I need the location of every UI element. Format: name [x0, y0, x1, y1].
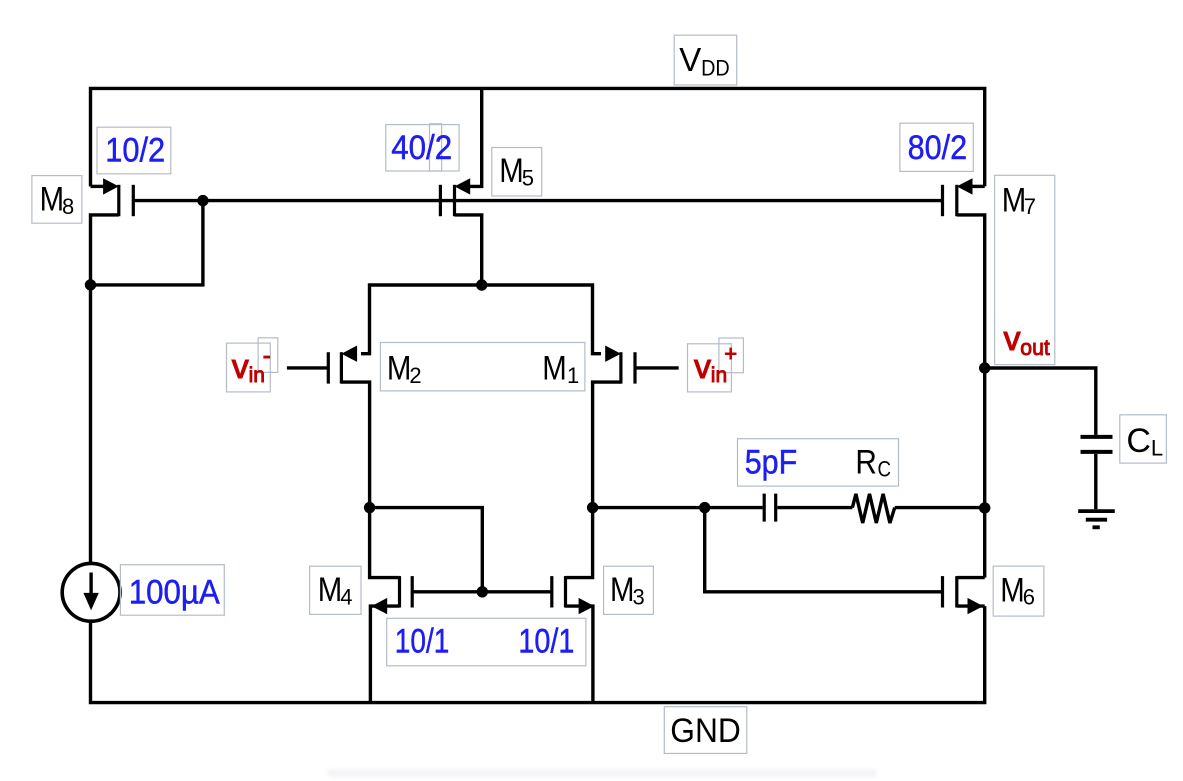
transistor M8 (PMOS 10/2, diode-connected mirror) [91, 178, 134, 216]
resistor RC zigzag [852, 494, 894, 523]
wire M4 diode tie (drain to gate) [370, 508, 483, 592]
label CL box [1120, 415, 1167, 463]
transistor M2 (PMOS, inverting input device) [287, 346, 357, 384]
transistor M7 (PMOS 80/2, second-stage source) [943, 178, 985, 216]
svg-text:M: M [318, 571, 343, 609]
label vin- superscript box [258, 338, 278, 373]
value 40/2 label box [386, 125, 459, 171]
svg-text:in: in [711, 364, 727, 387]
node M8 gate junction dot [197, 195, 208, 206]
svg-text:2: 2 [409, 363, 421, 388]
svg-text:5pF: 5pF [745, 443, 798, 481]
node VDD label box [674, 35, 737, 85]
label M4 box [310, 566, 361, 614]
svg-text:M: M [499, 152, 524, 190]
svg-text:10/1: 10/1 [395, 622, 450, 660]
node M2/M4 drain junction dot [364, 502, 375, 513]
svg-text:80/2: 80/2 [908, 129, 968, 167]
wire left rail mid segment (M8 drain to current source) [91, 215, 119, 563]
svg-text:1: 1 [567, 363, 579, 388]
svg-text:L: L [1151, 435, 1163, 460]
wire gate bus M8-M5-M7 [133, 199, 942, 202]
svg-text:10/2: 10/2 [105, 131, 165, 169]
label M8 box [32, 176, 82, 224]
value 80/2 label box [900, 123, 973, 171]
node compensation branch junction dot [699, 502, 710, 513]
wire cap to resistor [777, 506, 852, 509]
capacitor CL plates [1081, 435, 1113, 439]
value 100uA label box [120, 565, 224, 616]
label vin+ superscript box [719, 338, 744, 373]
wire M2 drain to M4 drain [341, 382, 399, 577]
svg-text:v: v [232, 348, 249, 386]
svg-text:out: out [1020, 335, 1050, 360]
svg-text:v: v [1004, 320, 1021, 358]
transistor M5 (PMOS 40/2, first-stage tail source) [440, 88, 481, 285]
svg-text:GND: GND [670, 712, 741, 750]
node M4/M3 gate junction dot [477, 586, 488, 597]
svg-text:DD: DD [701, 55, 730, 80]
value 5pF / RC label box [738, 439, 899, 486]
label vin- main box [227, 343, 271, 392]
svg-text:7: 7 [1024, 194, 1036, 219]
value 40/2 narrow overlay box [430, 124, 442, 171]
wire GND rail with lower left/right rail segments [91, 606, 985, 703]
wire M8 gate-drain tie [91, 201, 203, 285]
svg-text:8: 8 [62, 194, 74, 219]
wire vout to load capacitor [985, 368, 1096, 435]
svg-text:C: C [1126, 422, 1151, 460]
svg-text:3: 3 [633, 584, 645, 609]
wire CL bottom plate to ground [1094, 454, 1097, 509]
wire M1 drain to M3 drain [566, 382, 621, 577]
svg-text:M: M [387, 350, 412, 388]
label M3 box [604, 566, 654, 614]
decorative faint bottom band [327, 769, 877, 778]
svg-text:C: C [878, 457, 892, 482]
wire diff-pair source rail with M2/M1 source leads [361, 285, 601, 354]
label M2 M1 wide box [380, 343, 585, 391]
svg-text:6: 6 [1023, 585, 1035, 610]
svg-text:V: V [679, 41, 701, 78]
transistor M1 (PMOS, non-inverting input device) [605, 346, 679, 384]
node vout junction dot [979, 362, 990, 373]
svg-text:4: 4 [340, 584, 352, 609]
current source I1 100uA [62, 563, 120, 621]
svg-text:v: v [694, 348, 711, 386]
svg-text:M: M [1002, 182, 1027, 220]
node left rail junction dot [85, 279, 96, 290]
wire M4-M3 gate link [412, 590, 552, 593]
svg-text:M: M [1000, 571, 1025, 609]
label M5 box [492, 148, 542, 197]
svg-text:40/2: 40/2 [391, 129, 452, 167]
wire compensation node to M6 gate [705, 508, 943, 592]
node GND label box [664, 707, 747, 754]
svg-text:10/1: 10/1 [518, 622, 574, 660]
svg-text:+: + [724, 341, 737, 366]
svg-text:M: M [610, 571, 635, 609]
value 10/2 label box [97, 127, 171, 174]
svg-text:M: M [40, 180, 65, 218]
node compensation to vout rail junction dot [979, 502, 990, 513]
wire right rail mid segment (M7 drain to M6 drain) [957, 215, 985, 578]
svg-text:-: - [263, 343, 271, 370]
svg-text:R: R [855, 443, 877, 481]
svg-text:100µA: 100µA [129, 573, 220, 611]
transistor M3 (NMOS 10/1, mirror load) [552, 576, 595, 703]
node M1/M3 drain junction dot [587, 502, 598, 513]
transistor M6 (NMOS, second-stage driver) [943, 576, 985, 614]
wire resistor to output rail [895, 506, 985, 509]
capacitor Cc 5pF plates [763, 494, 766, 522]
transistor M4 (NMOS 10/1, mirror load) [370, 576, 412, 703]
label M6 box [993, 566, 1044, 616]
svg-text:M: M [542, 350, 567, 388]
svg-text:5: 5 [522, 166, 534, 191]
value 10/1 10/1 wide box [387, 618, 586, 666]
label vin+ main box [688, 344, 732, 392]
wire VDD rail with upper left/right rail segments [91, 88, 985, 186]
label M7 and vout tall box [995, 175, 1055, 364]
wire M1/M3 node to compensation cap [593, 506, 763, 509]
ground symbol under CL [1078, 511, 1115, 527]
node M5 drain junction dot (diff pair sources) [476, 279, 487, 290]
